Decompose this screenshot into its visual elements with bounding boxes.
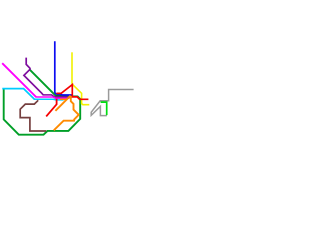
line: cyan hub horizontal <box>34 98 64 101</box>
line: grey north arm + hairpin <box>91 90 133 116</box>
line: cyan west horizontal + diagonal <box>2 89 34 99</box>
line: green loop (left + bottom + right) <box>4 89 81 135</box>
line: red main (hub, peak, vertical, east arm) <box>56 85 88 100</box>
line: orange hub stub <box>60 98 68 100</box>
line: purple zigzag <box>24 58 43 95</box>
line: green NW diagonal <box>30 70 56 96</box>
line: brown zigzag <box>20 100 46 131</box>
line: purple hub horizontal <box>43 95 71 97</box>
line: green dark horizontal through hub <box>55 95 78 98</box>
line: blue vertical + hub horizontal <box>55 41 72 95</box>
line: red south-west branch <box>46 99 56 117</box>
line: orange long diagonal <box>55 96 70 111</box>
line: yellow vertical <box>71 52 73 84</box>
line: orange south branch zigzag <box>54 96 79 130</box>
metro map canvas <box>0 0 160 160</box>
line: yellow diagonal + south vertical + east stub <box>73 84 90 104</box>
line: bright green east spur <box>101 102 107 115</box>
line: magenta hub horizontal <box>36 97 70 98</box>
line: magenta diagonal <box>2 63 36 97</box>
